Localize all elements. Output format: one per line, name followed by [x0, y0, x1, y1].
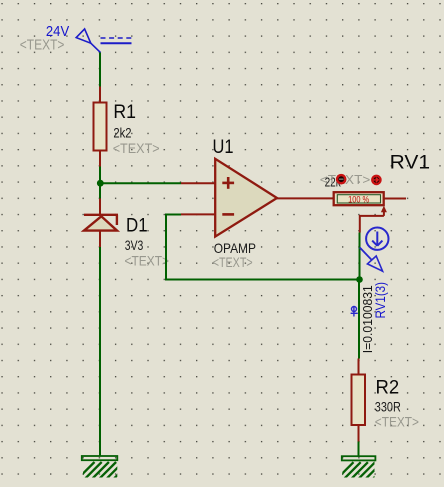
pot increment button [372, 176, 380, 184]
svg-text:3V3: 3V3 [125, 238, 144, 253]
svg-text:100 %: 100 % [348, 195, 369, 206]
wire op-amp minus input feedback [166, 215, 360, 280]
svg-text:RV1(3): RV1(3) [373, 282, 388, 319]
power terminal 24V [76, 29, 132, 53]
svg-text:<TEXT>: <TEXT> [375, 415, 419, 430]
wire junction to R2 [358, 280, 360, 359]
ground (right) [337, 456, 390, 479]
node junction R1/D1/opamp [97, 180, 104, 187]
potentiometer RV1 [334, 192, 406, 232]
svg-text:330R: 330R [375, 400, 401, 415]
resistor R2 [352, 359, 366, 442]
svg-text:RV1: RV1 [390, 152, 431, 174]
node junction wiper/feedback/R2 [356, 276, 363, 283]
wire pot wiper to junction [359, 233, 361, 280]
svg-text:<TEXT>: <TEXT> [125, 253, 170, 268]
svg-text:U1: U1 [213, 136, 234, 158]
wire D1 to ground [99, 247, 101, 456]
resistor R1 [94, 87, 107, 167]
op-amp U1 [181, 159, 334, 237]
current probe [360, 228, 389, 272]
zener diode D1 [84, 199, 118, 248]
wire R2 to ground [358, 442, 360, 456]
svg-text:<TEXT>: <TEXT> [113, 141, 160, 156]
ground (left) [78, 456, 131, 479]
wire R1 to D1 [99, 167, 101, 199]
svg-text:<TEXT>: <TEXT> [213, 255, 253, 270]
svg-text:2k2: 2k2 [113, 126, 131, 141]
pot decrement button [337, 175, 345, 183]
wire junction to op-amp plus input [100, 182, 181, 184]
svg-text:R2: R2 [376, 377, 400, 399]
svg-text:R1: R1 [113, 101, 136, 123]
svg-text:<TEXT>: <TEXT> [20, 38, 65, 54]
wire power to R1 [99, 53, 101, 87]
probe anchor mark [351, 306, 358, 316]
svg-text:D1: D1 [126, 214, 148, 236]
svg-text:OPAMP: OPAMP [214, 241, 256, 256]
